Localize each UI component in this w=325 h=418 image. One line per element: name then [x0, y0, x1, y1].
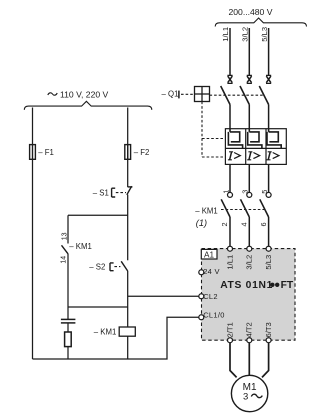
svg-text:A1: A1 [204, 251, 214, 260]
svg-text:200...480 V: 200...480 V [229, 7, 273, 17]
svg-text:– KM1: – KM1 [195, 206, 218, 215]
svg-text:– Q1: – Q1 [162, 90, 179, 99]
svg-text:(1): (1) [196, 218, 207, 228]
svg-text:14: 14 [61, 256, 68, 264]
svg-text:24 V: 24 V [203, 267, 220, 276]
svg-text:5/L3: 5/L3 [264, 255, 273, 270]
svg-text:4/T2: 4/T2 [245, 322, 254, 337]
svg-text:3/L2: 3/L2 [245, 255, 254, 270]
svg-text:2/T1: 2/T1 [225, 322, 234, 337]
svg-text:6/T3: 6/T3 [264, 322, 273, 337]
svg-text:6: 6 [259, 222, 268, 226]
svg-text:110 V, 220 V: 110 V, 220 V [60, 89, 109, 99]
svg-text:– KM1: – KM1 [69, 242, 92, 251]
svg-text:– S2: – S2 [89, 262, 105, 271]
svg-text:4: 4 [240, 222, 249, 226]
svg-text:ATS 01N1: ATS 01N1 [220, 280, 273, 291]
svg-text:5/L3: 5/L3 [260, 27, 269, 42]
svg-text:– S1: – S1 [93, 188, 109, 197]
svg-text:3/L2: 3/L2 [241, 27, 250, 42]
svg-text:– F1: – F1 [38, 148, 54, 157]
svg-text:FT: FT [281, 280, 294, 291]
svg-text:CL2: CL2 [203, 292, 218, 301]
svg-text:– KM1: – KM1 [94, 328, 117, 337]
svg-text:2: 2 [220, 222, 229, 226]
svg-text:1/L1: 1/L1 [221, 27, 230, 42]
svg-text:CL1/0: CL1/0 [203, 311, 225, 320]
svg-text:– F2: – F2 [134, 148, 150, 157]
svg-text:13: 13 [61, 232, 68, 240]
svg-text:3: 3 [243, 391, 248, 402]
svg-text:1/L1: 1/L1 [225, 255, 234, 270]
